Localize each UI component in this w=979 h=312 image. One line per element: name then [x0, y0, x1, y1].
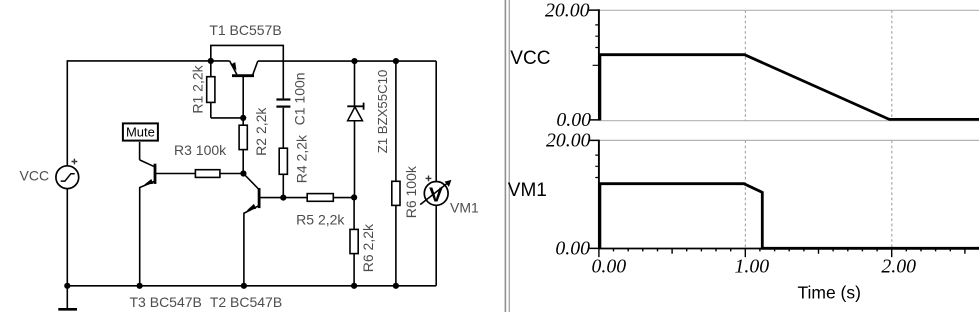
plot1 trace VCC	[600, 55, 979, 121]
transistor T3 (NPN BC547B)	[140, 160, 196, 286]
svg-text:Time (s): Time (s)	[797, 283, 861, 303]
svg-text:0.00: 0.00	[591, 255, 626, 277]
svg-text:VCC: VCC	[20, 168, 50, 184]
svg-text:20.00: 20.00	[545, 0, 590, 21]
ground	[58, 286, 77, 310]
transistor T1 (PNP BC557B)	[230, 61, 258, 118]
plot2 dashed gridline t=1	[744, 140, 746, 248]
svg-text:R1 2,2k: R1 2,2k	[189, 64, 205, 113]
node junction 11	[351, 283, 357, 289]
resistor R5	[283, 194, 354, 202]
resistor R6 100k	[392, 61, 400, 286]
svg-text:20.00: 20.00	[546, 130, 591, 152]
wire bottom ground rail	[67, 285, 436, 287]
node junction 9	[137, 283, 143, 289]
node junction 4	[240, 115, 246, 121]
node junction 8	[64, 283, 70, 289]
voltmeter VM1	[420, 61, 451, 286]
node junction 10	[241, 283, 247, 289]
plot2 y axis	[589, 140, 599, 249]
svg-text:R6 2,2k: R6 2,2k	[360, 223, 376, 272]
svg-text:VCC: VCC	[510, 48, 550, 69]
node junction 6	[280, 195, 286, 201]
svg-text:V: V	[429, 183, 443, 206]
plot1 zero gridline	[599, 120, 979, 122]
svg-text:0.00: 0.00	[555, 237, 590, 259]
wire top loop from node over to C1	[211, 45, 283, 98]
svg-text:Z1 BZX55C10: Z1 BZX55C10	[375, 70, 390, 154]
plot2 x axis	[599, 249, 979, 258]
resistor R3	[195, 170, 243, 178]
panel divider	[505, 0, 509, 312]
node junction 1	[208, 58, 214, 64]
svg-text:Mute: Mute	[126, 125, 155, 140]
wire collector of T1 to VM1	[258, 60, 436, 62]
svg-text:T3 BC547B: T3 BC547B	[130, 294, 202, 310]
node junction 7	[351, 194, 357, 200]
resistor R4	[279, 148, 287, 197]
svg-text:R6 100k: R6 100k	[403, 165, 419, 218]
capacitor C1	[276, 100, 290, 149]
plot2 top gridline	[599, 139, 979, 141]
svg-text:0.00: 0.00	[556, 109, 591, 131]
node junction 5	[240, 170, 246, 176]
wire left VCC rail bottom	[66, 189, 68, 286]
plot1 y axis	[589, 9, 599, 120]
wire left VCC rail top	[67, 61, 229, 166]
plot1 dashed gridline t=2	[891, 10, 893, 120]
node junction 3	[393, 58, 399, 64]
plot1 top gridline	[599, 9, 979, 11]
node junction 12	[393, 283, 399, 289]
resistor R2	[239, 118, 247, 174]
svg-text:T1 BC557B: T1 BC557B	[209, 22, 281, 38]
svg-text:R3 100k: R3 100k	[174, 142, 227, 158]
jumper Mute	[123, 123, 158, 159]
node junction 2	[351, 58, 357, 64]
zener diode Z1	[347, 61, 363, 197]
transistor T2 (NPN BC547B)	[243, 174, 283, 286]
plot2 trace VM1	[600, 184, 979, 249]
svg-text:T2 BC547B: T2 BC547B	[210, 294, 282, 310]
plot2 dashed gridline t=2	[891, 140, 893, 248]
svg-text:VM1: VM1	[450, 199, 479, 215]
svg-text:2.00: 2.00	[881, 255, 916, 277]
svg-text:R2 2,2k: R2 2,2k	[253, 107, 269, 156]
resistor R6 2,2k	[350, 197, 358, 285]
resistor R1	[207, 61, 244, 118]
svg-text:C1 100n: C1 100n	[292, 72, 308, 125]
svg-text:R4 2,2k: R4 2,2k	[293, 134, 309, 183]
voltage source VCC	[56, 159, 79, 189]
svg-text:R5 2,2k: R5 2,2k	[296, 211, 345, 227]
svg-text:VM1: VM1	[508, 180, 547, 201]
plot1 dashed gridline t=1	[744, 10, 746, 120]
svg-text:1.00: 1.00	[734, 255, 769, 277]
